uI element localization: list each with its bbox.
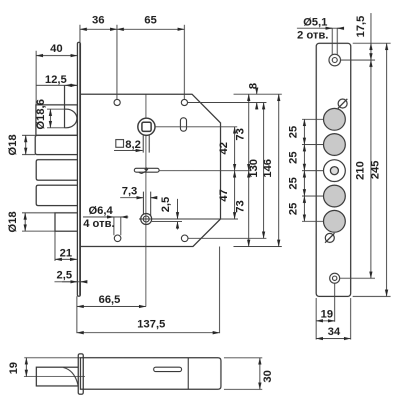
ext body bottom right — [233, 246, 281, 248]
svg-text:42: 42 — [218, 142, 230, 154]
latch centerline — [24, 376, 85, 378]
dim 19 — [316, 320, 334, 322]
dim O18.6 ext lines — [47, 109, 65, 128]
ext cylinder line tick — [220, 218, 238, 220]
O5.1 ext lines — [332, 28, 337, 54]
ext hole top right — [188, 101, 267, 103]
svg-text:34: 34 — [328, 326, 341, 338]
dim line O18 lower — [24, 213, 26, 231]
svg-text:Ø18: Ø18 — [7, 134, 19, 155]
svg-text:65: 65 — [144, 15, 156, 27]
ext bowtie center — [159, 170, 251, 172]
bolt hole C2 — [324, 134, 346, 156]
dim O18 lower ext — [22, 213, 55, 231]
slot near spindle — [180, 118, 186, 131]
svg-text:73: 73 — [235, 128, 247, 140]
ext plate top — [353, 42, 391, 44]
ext plate bottom — [353, 295, 391, 297]
svg-text:19: 19 — [8, 362, 20, 374]
ext line hole1 vertical — [116, 25, 118, 100]
dim line 2.5 faceplate — [54, 281, 85, 283]
ext body right to 137.5 — [219, 247, 221, 334]
right stack: ext square center — [155, 126, 237, 128]
faceplate front outline — [316, 43, 351, 296]
svg-text:30: 30 — [262, 370, 274, 382]
screw hole top-left — [114, 99, 120, 105]
svg-text:2 отв.: 2 отв. — [297, 29, 328, 41]
dim line 12.5 — [36, 84, 77, 86]
svg-text:25: 25 — [287, 126, 299, 138]
faceplate (edge view) — [77, 42, 80, 296]
svg-text:17,5: 17,5 — [355, 16, 367, 38]
inner separation line — [187, 358, 189, 390]
ext 19/34 — [316, 283, 351, 339]
svg-text:137,5: 137,5 — [137, 319, 165, 331]
svg-text:21: 21 — [60, 248, 72, 260]
dim line B 73 upper — [248, 94, 250, 170]
key channel lines lower — [143, 192, 150, 216]
dim line B 73 lower — [248, 171, 250, 247]
dim line O18 upper — [25, 135, 27, 154]
dim line A 47 — [234, 171, 236, 219]
svg-text:8,2: 8,2 — [125, 139, 141, 151]
deadbolt 1 — [35, 135, 77, 154]
dim 25 x4 line — [303, 119, 305, 144]
cylinder screw hole — [141, 213, 152, 224]
dims right view — [297, 13, 391, 340]
lever pill — [134, 168, 159, 172]
ext/top edge line extended — [24, 357, 80, 359]
svg-text:8: 8 — [247, 83, 259, 89]
ext line 40 left — [35, 51, 37, 105]
svg-text:36: 36 — [92, 15, 104, 27]
ext 30 — [224, 358, 262, 390]
bolt hole C5 — [323, 210, 345, 232]
ext lines 25 stack — [302, 119, 324, 221]
latch guide box — [36, 105, 78, 136]
svg-text:2,5: 2,5 — [160, 197, 172, 213]
deadbolt 2 — [36, 160, 77, 180]
lock body outline — [80, 94, 220, 246]
dim line E 146 — [278, 94, 280, 246]
lever notch wave — [139, 172, 147, 174]
ext top hole center — [341, 59, 375, 61]
ext line 21 — [54, 231, 56, 261]
leader 8.2 — [114, 149, 143, 151]
dim 17.5 + 210 vertical line — [370, 13, 372, 43]
faceplate bar bottom view — [78, 354, 83, 394]
dim line 40 — [36, 55, 77, 57]
O5.1 leader line with arrows — [297, 27, 344, 29]
bottom screw hole — [330, 273, 340, 283]
dim line A 42 — [234, 127, 236, 171]
lever hub diamond — [144, 167, 148, 172]
dim line 36 — [80, 28, 117, 30]
svg-text:25: 25 — [287, 151, 299, 163]
ext bottom hole center — [340, 277, 375, 279]
dim line 21 — [55, 258, 77, 260]
dim 245 line — [386, 43, 388, 296]
svg-text:4 отв.: 4 отв. — [83, 218, 114, 230]
offset line 2.5 below cylinder axis — [152, 221, 182, 223]
svg-text:19: 19 — [321, 309, 333, 321]
top fixing screw (slotted) — [338, 99, 347, 108]
dim line C 130 — [263, 103, 265, 239]
svg-text:210: 210 — [354, 161, 366, 180]
spindle circle — [138, 118, 155, 135]
svg-text:2,5: 2,5 — [56, 270, 72, 282]
ext faceplate bottom to dims — [76, 296, 78, 333]
svg-text:47: 47 — [218, 189, 230, 201]
svg-text:Ø5,1: Ø5,1 — [303, 16, 327, 28]
ext hole bottom right — [188, 237, 266, 239]
bolt hole C4 — [323, 185, 345, 207]
svg-text:130: 130 — [248, 159, 260, 178]
dim O18 upper ext — [22, 135, 35, 154]
svg-text:7,3: 7,3 — [122, 186, 138, 198]
ext line faceplate top — [79, 25, 81, 42]
svg-text:25: 25 — [287, 177, 299, 189]
dim 7.3 — [120, 197, 143, 199]
latch bolt bottom view — [36, 367, 78, 386]
ext line hole2 vertical — [183, 25, 185, 100]
spindle square 8.2 — [142, 122, 151, 131]
svg-text:Ø18: Ø18 — [7, 211, 19, 232]
deadbolt 3 — [36, 185, 77, 205]
square symbol of label 8,2 — [116, 140, 124, 148]
vertical centerline — [145, 94, 147, 306]
screw hole bottom-right — [181, 235, 188, 242]
dim 8 arrows — [256, 89, 258, 94]
dim 2.5 cylinder — [176, 199, 178, 227]
svg-text:Ø18,6: Ø18,6 — [35, 99, 47, 129]
leader O6.4 — [83, 216, 128, 218]
body bottom view — [80, 358, 221, 390]
cylinder horizontal axis line to body corner — [139, 218, 220, 220]
dim line 66.5 — [77, 305, 146, 307]
svg-text:12,5: 12,5 — [45, 74, 67, 86]
latch bevel curve — [63, 367, 78, 385]
dim 19 bottom view — [25, 358, 27, 377]
faceplate right edge accent — [79, 43, 81, 295]
screw hole bottom-left — [114, 235, 121, 242]
svg-text:25: 25 — [287, 203, 299, 215]
svg-text:73: 73 — [235, 200, 247, 212]
dim 34 — [316, 338, 351, 340]
svg-text:146: 146 — [262, 159, 274, 178]
dim line 65 — [117, 28, 184, 30]
bottom fixing screw (slotted) — [325, 233, 334, 242]
svg-text:40: 40 — [50, 43, 62, 55]
top screw hole — [329, 54, 341, 66]
svg-text:245: 245 — [370, 161, 382, 180]
latch bolt head D — [65, 85, 77, 127]
ext body top right — [234, 93, 282, 95]
deadbolt 4 (short) — [55, 213, 77, 231]
dim line 137.5 — [77, 332, 220, 334]
bolt hole C3 with pin — [324, 160, 346, 182]
dim 30 — [259, 358, 261, 390]
dim line O18.6 — [49, 109, 51, 128]
svg-text:66,5: 66,5 — [99, 294, 121, 306]
key channel lines upper — [143, 135, 149, 152]
svg-text:Ø6,4: Ø6,4 — [88, 205, 113, 217]
slot in body — [154, 367, 182, 371]
screw hole top-right — [181, 99, 187, 105]
bolt hole C1 — [324, 108, 346, 130]
